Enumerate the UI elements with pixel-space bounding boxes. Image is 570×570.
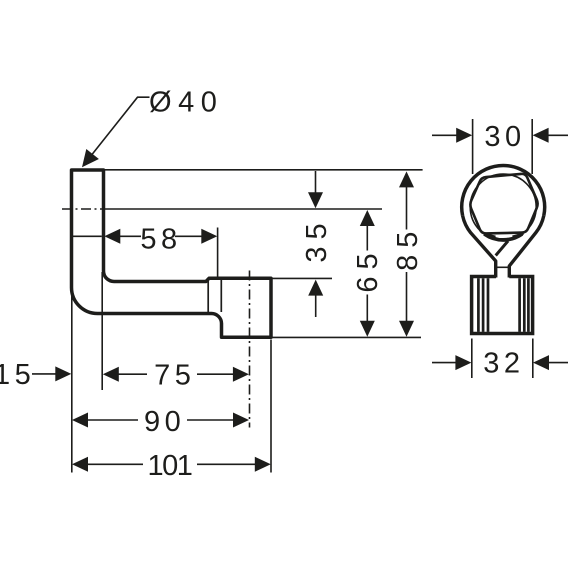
- arrow 30 right: [533, 128, 549, 143]
- strap right: [509, 216, 544, 278]
- dim 90 lines: [88, 419, 234, 421]
- dim 75 lines: [118, 373, 234, 375]
- svg-text:Ø40: Ø40: [149, 87, 223, 119]
- arrow 32 left: [455, 355, 471, 370]
- dim 32 leaders: [432, 362, 568, 364]
- extension line B: [106, 208, 382, 210]
- extension line A top: [104, 169, 423, 171]
- arrow 85 top: [399, 171, 414, 187]
- extension line C: [273, 277, 333, 279]
- extension line D bottom: [273, 336, 422, 338]
- svg-text:75: 75: [154, 360, 195, 392]
- right view extension lines bottom: [472, 339, 533, 379]
- svg-text:58: 58: [140, 224, 181, 256]
- svg-text:101: 101: [147, 450, 191, 482]
- strap crossover: [496, 241, 508, 256]
- dim 65 stems: [366, 225, 368, 322]
- hexagon: [470, 174, 537, 234]
- joint line socket left: [207, 280, 209, 313]
- ring inner circle: [470, 174, 536, 240]
- right view extension lines top: [473, 119, 533, 174]
- extension line x102: [101, 272, 103, 390]
- neck tick: [497, 266, 510, 268]
- arrow 90 right: [233, 413, 249, 428]
- arrow 65 top: [360, 210, 375, 226]
- block outline: [472, 277, 533, 334]
- dim 101 lines: [88, 463, 256, 465]
- joint line socket left 2: [220, 280, 222, 312]
- arrow 75 left: [103, 367, 119, 382]
- arrow 58 right: [201, 229, 217, 244]
- dim 85 stems: [406, 187, 408, 322]
- dim 35 stems: [315, 171, 317, 317]
- dim 58 lines: [120, 235, 203, 237]
- svg-text:15: 15: [0, 359, 35, 391]
- extension line x72: [71, 290, 73, 473]
- arrow 35 top: [308, 192, 323, 208]
- arrow 101 right: [255, 457, 271, 472]
- centerline inlet dash-dot: [62, 208, 106, 210]
- arrow 101 left: [72, 457, 88, 472]
- arrow 75 right: [233, 367, 249, 382]
- block inner lines: [478, 278, 528, 332]
- hexagon bottom tab left: [485, 234, 496, 237]
- svg-text:90: 90: [144, 406, 185, 438]
- svg-text:65: 65: [352, 246, 384, 292]
- arrow 90 left: [72, 413, 88, 428]
- hexagon bottom tab right: [513, 234, 524, 237]
- svg-text:85: 85: [392, 225, 424, 271]
- arrow O40: [82, 149, 99, 167]
- extension line x271: [270, 340, 272, 473]
- arrow 65 bottom: [360, 321, 375, 337]
- arrow 30 left: [456, 128, 472, 143]
- arrow 15: [55, 366, 71, 381]
- dim 15 leader: [32, 373, 57, 375]
- ring outer circle: [462, 166, 545, 216]
- dim 30 leaders: [432, 134, 568, 136]
- extension line x217: [217, 228, 219, 277]
- svg-text:35: 35: [301, 216, 333, 262]
- line in pipe at 58: [73, 235, 102, 237]
- svg-text:30: 30: [484, 121, 525, 153]
- ring inner bottom band: [484, 234, 522, 240]
- strap left: [463, 216, 496, 278]
- arrow 85 bottom: [399, 321, 414, 337]
- arrow 35 bottom: [308, 280, 323, 296]
- part outline left view: [72, 170, 272, 337]
- svg-text:32: 32: [483, 348, 524, 380]
- arrow 58 left: [104, 229, 120, 244]
- socket centerline dash-dot: [249, 271, 251, 428]
- arrow 32 right: [533, 355, 549, 370]
- leader O40: [92, 97, 150, 154]
